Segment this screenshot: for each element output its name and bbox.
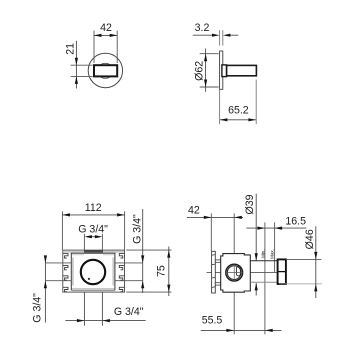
dia 46 arrow up [314, 284, 317, 292]
left inner gray strip [72, 258, 74, 286]
svg-text:21: 21 [65, 43, 77, 55]
dia 46 arrow down [314, 252, 317, 260]
svg-text:42: 42 [188, 204, 200, 216]
svg-text:65.2: 65.2 [228, 104, 249, 116]
dim 75 dimension line [168, 247, 170, 297]
dim 42 extension lines [93, 31, 95, 63]
dim 112 arrow right [117, 213, 125, 216]
top thread opening dark edge [84, 250, 103, 253]
handle lever rectangle [94, 65, 117, 76]
top G 3/4 stub extension lines [83, 234, 85, 251]
right G 3/4 arrow up [141, 281, 144, 289]
wall plate side [212, 251, 216, 293]
dim 75 arrow top [167, 250, 170, 258]
handle bump bottom [101, 75, 110, 79]
right port lines [115, 262, 143, 264]
svg-text:3.2: 3.2 [195, 22, 210, 34]
vertical centerline [233, 213, 235, 334]
dia 62 arrow top [204, 54, 207, 62]
stem slot capsule [236, 267, 240, 276]
dim 42 arrow left [94, 34, 102, 37]
dia 46 extension line top [286, 258, 322, 260]
svg-text:G 3/4": G 3/4" [32, 293, 44, 323]
body circle outer [226, 264, 243, 281]
horizontal centerline [207, 272, 286, 274]
left G 3/4 dimension line [44, 256, 46, 323]
dia 62 dimension line [205, 49, 207, 92]
dim 75 arrow bottom [167, 285, 170, 293]
dim 21 arrow top [75, 58, 78, 65]
bottom gray shading band [72, 288, 115, 291]
valve body side outline [221, 254, 251, 293]
dim 3.2 arrow right [223, 34, 231, 37]
bottom G 3/4 arrow right [77, 319, 85, 322]
svg-text:Min.: Min. [261, 249, 266, 258]
stem tube bottom line [250, 281, 277, 283]
collar divider [278, 271, 286, 273]
dim 75 extension lines [126, 249, 171, 251]
left port lines [45, 262, 71, 264]
top inner gray segment right [103, 254, 114, 256]
dia 46 dimension line [315, 226, 317, 298]
svg-text:G 3/4": G 3/4" [132, 214, 144, 244]
dim 42 extension line left [210, 213, 212, 251]
dim 112 dimension line [62, 214, 124, 216]
svg-text:Ø39: Ø39 [244, 194, 256, 214]
top gray shading band [63, 251, 124, 253]
left G 3/4 arrow up [44, 281, 47, 289]
dia 39 arrow down [255, 253, 258, 260]
dia 39 dimension line upper [255, 194, 257, 261]
dim 42 arrow left [204, 216, 212, 219]
svg-text:Ø46: Ø46 [304, 229, 316, 249]
svg-text:75: 75 [156, 265, 168, 277]
dim 42 dimension line [187, 216, 243, 218]
outer plate rectangle [63, 250, 125, 292]
dim 16.5 arrow left (at Max line) [275, 227, 283, 230]
neck step bottom [215, 283, 220, 285]
dim 3.2 arrow left [212, 34, 220, 37]
neck step top [215, 260, 220, 262]
svg-text:G 3/4": G 3/4" [78, 223, 108, 235]
svg-text:42: 42 [100, 22, 112, 34]
handle bump top [101, 63, 110, 67]
bottom stub lines [83, 292, 85, 326]
dim 42 arrow right [110, 34, 118, 37]
dim 3.2 dimension line right [230, 34, 238, 36]
top inner gray segment left [72, 254, 84, 256]
top G 3/4 arrow right [95, 235, 103, 238]
dia 62 extension lines [200, 53, 219, 55]
top G 3/4 arrow left [84, 235, 92, 238]
right G 3/4 arrow down [141, 255, 144, 263]
dia 39 dimension line lower [255, 283, 257, 296]
circle crosshair [226, 272, 243, 274]
dim 16.5 arrow right (at Min line) [257, 227, 265, 230]
Max extension line [274, 222, 276, 271]
dim 21 dimension line [75, 41, 77, 89]
dia 62 arrow bottom [204, 80, 207, 88]
top G 3/4 dimension line [91, 236, 97, 238]
dia 39 arrow up [255, 283, 258, 291]
dim 55.5 arrow left [265, 329, 273, 332]
dim 21 extension lines [71, 64, 93, 66]
bottom G 3/4 dimension line [65, 320, 145, 322]
bottom G 3/4 arrow left [102, 319, 110, 322]
left G 3/4 arrow down [44, 255, 47, 263]
svg-text:16.5: 16.5 [285, 215, 306, 227]
right thread curls [119, 254, 124, 292]
dim 65.2 arrow right [248, 118, 256, 121]
threaded collar [278, 259, 286, 284]
Min extension line [264, 222, 266, 334]
dim 42 arrow right [234, 216, 242, 219]
handle collar side [222, 65, 227, 77]
dim 55.5 arrow right [226, 329, 234, 332]
svg-text:112: 112 [85, 202, 102, 214]
right inner gray strip [112, 258, 114, 286]
right G 3/4 dimension line [142, 209, 144, 293]
dia 46 extension line bottom [279, 283, 322, 285]
escutcheon circle [88, 53, 122, 87]
body circle inner [227, 266, 241, 280]
inner body rectangle [71, 253, 115, 290]
dim 3.2 dimension line left [193, 34, 213, 36]
svg-text:G 3/4": G 3/4" [114, 306, 144, 318]
dim 21 arrow bottom [75, 76, 78, 84]
left thread curls [63, 254, 68, 292]
dim 3.2 extension lines above plate [219, 30, 221, 45]
small dot inside circle [88, 278, 90, 280]
svg-text:55.5: 55.5 [202, 314, 223, 326]
svg-text:Ø62: Ø62 [194, 61, 206, 81]
bottom inner gray band [72, 288, 114, 290]
dim 65.2 dimension line [220, 119, 256, 121]
wall plate hatch ticks [212, 255, 215, 288]
svg-text:Max.: Max. [269, 249, 274, 259]
dim 55.5 dimension line [201, 329, 282, 331]
cartridge circle [81, 260, 105, 284]
dim 65.2 extension lines [219, 90, 221, 125]
dim 16.5 dimension line [246, 227, 306, 229]
dim 65.2 arrow left [220, 118, 228, 121]
stem tube top line [250, 260, 277, 262]
dim 112 extension lines [61, 211, 63, 249]
handle stem cylinder [227, 65, 257, 75]
dim 112 arrow left [62, 213, 70, 216]
escutcheon plate side profile [220, 51, 223, 89]
dim 42 dimension line [94, 34, 117, 36]
